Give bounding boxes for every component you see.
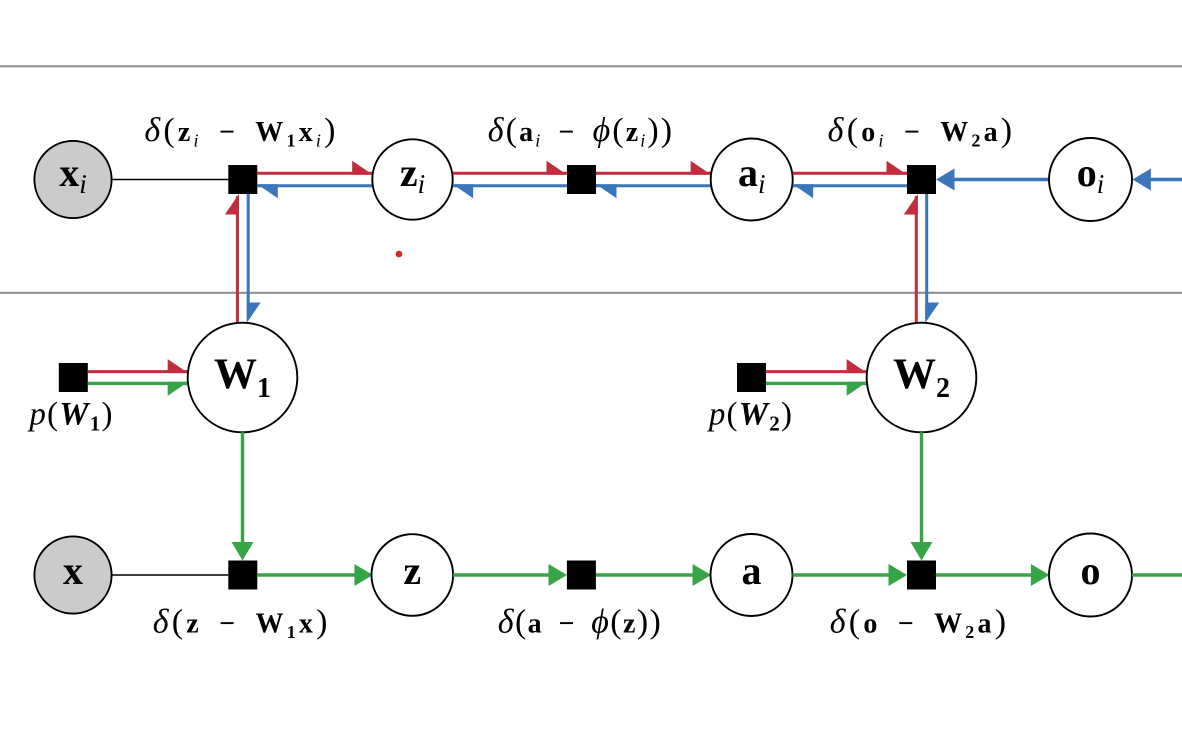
wire green sample a to bottom factor3 (793, 564, 908, 586)
wire x to bottom factor delta(z-W1x) (112, 574, 229, 576)
label o (1081, 548, 1101, 593)
label p(W2) (707, 397, 793, 436)
label delta(a - phi(z)) (498, 604, 663, 641)
red dot marker (396, 251, 403, 258)
svg-text:δ(a − ϕ(z)): δ(a − ϕ(z)) (498, 604, 663, 641)
wire green sample z to bottom factor2 (453, 564, 567, 586)
label z_i (400, 150, 425, 199)
wire red message z_i to factor2 (453, 161, 567, 175)
wire blue message factor2 to z_i (453, 184, 567, 198)
label p(W1) (27, 397, 113, 436)
node x (observed, shaded circle) (34, 536, 111, 613)
node a (711, 534, 793, 616)
label delta(o_i - W2 a) (828, 112, 1016, 151)
wire green sample W2 down to bottom factor3 (911, 432, 933, 560)
svg-text:z: z (403, 548, 421, 593)
factor delta(a_i - phi(z_i)) (567, 165, 596, 194)
horizontal separator line (lower) (0, 292, 1182, 294)
factor delta(z_i - W1 x_i) (228, 165, 257, 194)
node W2 (867, 323, 977, 433)
wire green sample factor3 to o (936, 564, 1049, 586)
factor delta(o_i - W2 a) (907, 165, 936, 194)
svg-text:p(W1​): p(W1​) (27, 397, 113, 436)
wire red message p(W1) to W1 (88, 359, 188, 373)
label delta(a_i - phi(z_i)) (488, 112, 674, 151)
wire red message factor1 to z_i (257, 161, 372, 175)
svg-text:δ(zi​ − W1​xi​): δ(zi​ − W1​xi​) (144, 112, 338, 151)
node o_i (observed) (1049, 138, 1132, 221)
label z (403, 548, 421, 593)
wire red message W2 up to factor3 (904, 194, 918, 323)
svg-text:p(W2​): p(W2​) (707, 397, 793, 436)
label a_i (738, 150, 766, 199)
wire green sample factor2 to a (596, 564, 711, 586)
wire red message a_i to factor3 (793, 161, 907, 175)
wire blue message a_i to factor2 (596, 184, 711, 198)
wire green sample o to right edge (1132, 573, 1182, 576)
bottom factor delta(z - W1 x) (228, 561, 257, 590)
wire green sample message p(W1) to W1 (88, 382, 188, 396)
label W1 (214, 351, 271, 404)
node o (1049, 534, 1132, 617)
label x_i (59, 150, 87, 199)
node x_i (observed, shaded circle) (34, 141, 111, 218)
factor p(W1) prior (59, 363, 88, 392)
wire green sample message p(W2) to W2 (766, 382, 867, 396)
svg-text:a: a (742, 548, 762, 593)
horizontal separator line (upper) (0, 65, 1182, 67)
wire red message W1 up to factor1 (225, 194, 239, 323)
bottom factor delta(a - phi(z)) (567, 561, 596, 590)
wire blue message factor3 down to W2 (925, 194, 939, 323)
wire blue message factor1 down to W1 (247, 194, 261, 323)
node z (372, 534, 454, 616)
node a_i (711, 139, 793, 221)
svg-text:δ(o − W2​a): δ(o − W2​a) (830, 604, 1009, 643)
bottom factor delta(o - W2 a) (907, 561, 936, 590)
label W2 (893, 351, 950, 404)
wire blue message o_i to factor3 (full arrow) (936, 169, 1049, 191)
wire blue message z_i to factor1 (257, 184, 372, 198)
label delta(z_i - W1 x_i) (144, 112, 338, 151)
label delta(o - W2 a) (830, 604, 1009, 643)
wire green sample W1 down to bottom factor1 (232, 432, 254, 560)
factor p(W2) prior (737, 363, 766, 392)
label o_i (1077, 150, 1105, 199)
label delta(z - W1 x) (153, 604, 331, 643)
node z_i (372, 139, 452, 219)
svg-text:δ(oi​ − W2​a): δ(oi​ − W2​a) (828, 112, 1016, 151)
wire red message factor2 to a_i (596, 161, 711, 175)
node W1 (188, 323, 298, 433)
wire green sample factor1 to z (257, 564, 373, 586)
label a (742, 548, 762, 593)
svg-text:x: x (63, 548, 83, 593)
label x (63, 548, 83, 593)
wire red message p(W2) to W2 (766, 359, 867, 373)
svg-text:δ(z − W1​x): δ(z − W1​x) (153, 604, 331, 643)
wire blue message factor3 to a_i (793, 184, 907, 198)
svg-text:o: o (1081, 548, 1101, 593)
wire x_i to factor delta(z_i-W1x_i) (112, 179, 229, 181)
wire blue observation message into o_i from right edge (1132, 169, 1182, 191)
